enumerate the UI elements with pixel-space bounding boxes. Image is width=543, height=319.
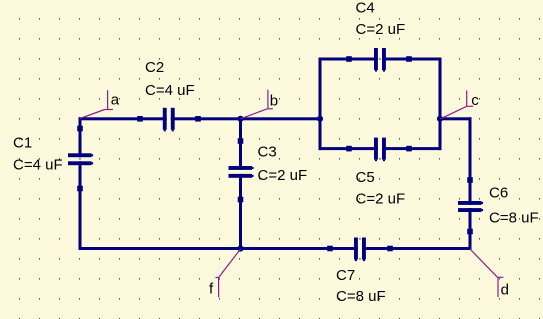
svg-text:C1: C1 xyxy=(13,134,32,151)
svg-text:C=4 uF: C=4 uF xyxy=(13,157,63,174)
svg-text:C=8 uF: C=8 uF xyxy=(489,209,539,226)
junction box left dot xyxy=(317,116,323,122)
wire: left vertical through C1 xyxy=(79,117,82,250)
svg-text:C4: C4 xyxy=(356,0,375,17)
wire: parallel box top branch xyxy=(319,58,442,61)
svg-text:C5: C5 xyxy=(356,169,375,186)
svg-text:C2: C2 xyxy=(145,59,164,76)
capacitor C5 xyxy=(346,137,412,162)
junction box right dot xyxy=(437,116,443,122)
capacitor C1 xyxy=(67,126,93,192)
junction bottom f dot xyxy=(237,245,243,251)
svg-text:b: b xyxy=(270,92,278,109)
svg-text:C=2 uF: C=2 uF xyxy=(356,21,406,38)
capacitor C7 xyxy=(327,237,393,262)
capacitor C3 xyxy=(228,138,254,202)
capacitor C4 xyxy=(346,47,412,72)
svg-text:d: d xyxy=(501,281,509,298)
node a tick xyxy=(80,90,113,118)
wire: box to node c horizontal xyxy=(439,117,472,120)
svg-text:c: c xyxy=(471,92,479,109)
svg-text:C=4 uF: C=4 uF xyxy=(145,82,195,99)
capacitor C2 xyxy=(137,107,201,132)
svg-text:C=2 uF: C=2 uF xyxy=(258,167,308,184)
wire: node b vertical through C3 xyxy=(239,118,242,249)
node c tick xyxy=(441,90,474,118)
wire: right vertical through C6 xyxy=(469,117,472,250)
node d tick xyxy=(470,249,503,297)
wire: parallel box left vertical xyxy=(319,58,322,151)
svg-text:C6: C6 xyxy=(489,185,508,202)
junction node b dot xyxy=(237,116,243,122)
svg-text:C7: C7 xyxy=(336,267,355,284)
svg-text:C=2 uF: C=2 uF xyxy=(356,191,406,208)
node f tick xyxy=(216,249,241,297)
svg-text:C=8 uF: C=8 uF xyxy=(336,288,386,305)
svg-text:C3: C3 xyxy=(258,144,277,161)
wire: main horizontal a-b-box xyxy=(79,117,322,120)
wire: parallel box right vertical xyxy=(439,58,442,151)
wire: parallel box bottom branch xyxy=(319,147,442,150)
svg-text:a: a xyxy=(111,91,120,108)
capacitor C6 xyxy=(457,177,483,234)
wire: bottom horizontal xyxy=(79,247,472,250)
node b tick xyxy=(241,90,273,119)
